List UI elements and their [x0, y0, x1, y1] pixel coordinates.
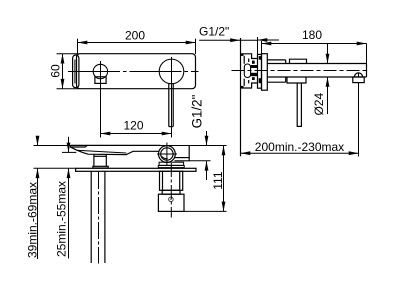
horizontal center line front view [68, 71, 199, 73]
valve body inner right [179, 171, 181, 190]
arm foot shoulder [94, 155, 106, 157]
valve joint inner circle [161, 148, 173, 160]
dim 25min-55max lower arrow [68, 168, 70, 258]
dimension 180 line [262, 43, 367, 45]
svg-text:200min.-230max: 200min.-230max [255, 140, 344, 154]
handle square below circle [95, 77, 106, 84]
wall plate front [77, 54, 196, 89]
lever stem front [168, 83, 170, 126]
vertical center line small circle [100, 61, 102, 138]
diameter 24 lower arrow [327, 77, 329, 114]
union band bottom [251, 73, 258, 76]
union corner sliver top [241, 54, 244, 56]
union corner sliver bottom [241, 86, 244, 88]
plate edge inner line [74, 60, 76, 84]
outlet extension line down [358, 83, 360, 157]
flange cylinder behind plate top [267, 59, 285, 61]
diameter 24 upper arrow [327, 44, 329, 64]
wall depth line [240, 38, 242, 156]
spout arm bottom edge [83, 151, 159, 154]
svg-text:111: 111 [211, 171, 225, 190]
G1/2 leader arrow [199, 39, 240, 41]
outlet center tick [358, 73, 360, 77]
union wedge bottom [252, 77, 255, 80]
G1/2 leader down arrow [206, 131, 208, 146]
small dim up arrow [206, 161, 208, 180]
outlet dome arc [354, 73, 362, 77]
union hose oval [244, 64, 250, 78]
svg-text:60: 60 [48, 64, 62, 78]
spout tube top line [267, 63, 366, 65]
spout arm left tip [71, 145, 83, 152]
handle base bump bottom [287, 77, 306, 83]
valve joint inner arc detail [162, 157, 168, 159]
valve body below plate [160, 171, 183, 190]
dimension 200 right extension [195, 39, 197, 54]
valve neck [162, 190, 180, 194]
seal square bottom [259, 78, 262, 83]
valve center line vertical [170, 163, 172, 218]
G1/2 opposing arrow [258, 39, 279, 41]
arm foot left [93, 155, 95, 167]
lever stem front right line [172, 83, 174, 126]
side view center line [232, 70, 370, 72]
spout tube end [366, 64, 368, 78]
dimension 60 line [62, 54, 64, 89]
extension line valve bottom small [189, 160, 210, 162]
valve joint outer circle [159, 146, 176, 163]
handle screw [169, 197, 174, 202]
vertical center line large circle [171, 57, 173, 138]
dimension 200 line [78, 42, 196, 44]
svg-text:Ø24: Ø24 [312, 93, 326, 116]
dimension 60 top extension [57, 53, 79, 55]
mounting plate bar (edge-on) [76, 168, 196, 171]
extension line arm top left [34, 145, 227, 147]
seal square top [259, 56, 262, 60]
extension line plate bottom left [34, 167, 76, 169]
union wedge top [252, 61, 255, 64]
spout circle (large) [159, 59, 184, 84]
dim 25min-55max upper arrow [68, 137, 70, 153]
in-wall union outline top [241, 54, 258, 59]
dimension 180 left extension [261, 41, 263, 54]
flange bar small under circle [159, 162, 184, 165]
flange cylinder bottom [267, 81, 285, 83]
svg-text:25min.-55max: 25min.-55max [54, 181, 68, 257]
in-wall union outline bottom [241, 83, 258, 88]
rear flange [258, 54, 262, 88]
handle stem side [297, 83, 301, 126]
dimension 200 left extension [77, 39, 79, 54]
plate left edge strip [73, 55, 79, 88]
valve body inner left [162, 171, 164, 190]
spout arm inner contour [71, 145, 88, 147]
dimension 60 bottom extension [57, 88, 80, 90]
spout outlet [353, 77, 364, 83]
valve joint horizontal center line [157, 153, 177, 155]
svg-text:180: 180 [302, 28, 322, 42]
extension line handle block bottom [184, 210, 227, 212]
union band top [251, 65, 258, 68]
flange bar wide under circle [158, 165, 184, 167]
flange step top [285, 60, 287, 64]
spout tube bottom line [267, 76, 366, 78]
lever stem bottom cap [169, 126, 173, 128]
spout tube center line [98, 172, 100, 264]
flange step bottom [285, 77, 287, 82]
handle end block [158, 194, 184, 211]
valve block top [175, 146, 190, 161]
spout arm inner lower line [77, 150, 127, 153]
dim 39min-69max lower arrow [37, 168, 39, 259]
dimension 200min-230max line [241, 152, 359, 154]
svg-text:G1/2": G1/2" [189, 94, 204, 128]
handle circle (small) [93, 64, 107, 78]
dimension 180 extension right upper [366, 44, 368, 64]
svg-text:G1/2": G1/2" [199, 25, 229, 39]
svg-text:39min.-69max: 39min.-69max [26, 182, 40, 258]
cartridge bump top [290, 59, 307, 63]
arm foot right [105, 155, 107, 167]
dim 39min-69max upper arrow [37, 137, 39, 146]
arm foot base [93, 166, 108, 168]
dimension 111 line [223, 146, 225, 212]
spout tube down right [104, 171, 106, 263]
dimension 120 line [101, 133, 172, 135]
svg-text:200: 200 [125, 28, 145, 42]
valve block inner line [175, 157, 190, 159]
plate edge-on [262, 54, 268, 90]
valve joint vertical center line [166, 143, 168, 166]
extension line arm tip lower [62, 151, 76, 153]
svg-text:120: 120 [123, 119, 143, 133]
union inner step lines [244, 56, 249, 86]
spout tube down left [90, 171, 92, 263]
spout arm top edge [71, 144, 161, 146]
leader continuation [241, 39, 258, 41]
